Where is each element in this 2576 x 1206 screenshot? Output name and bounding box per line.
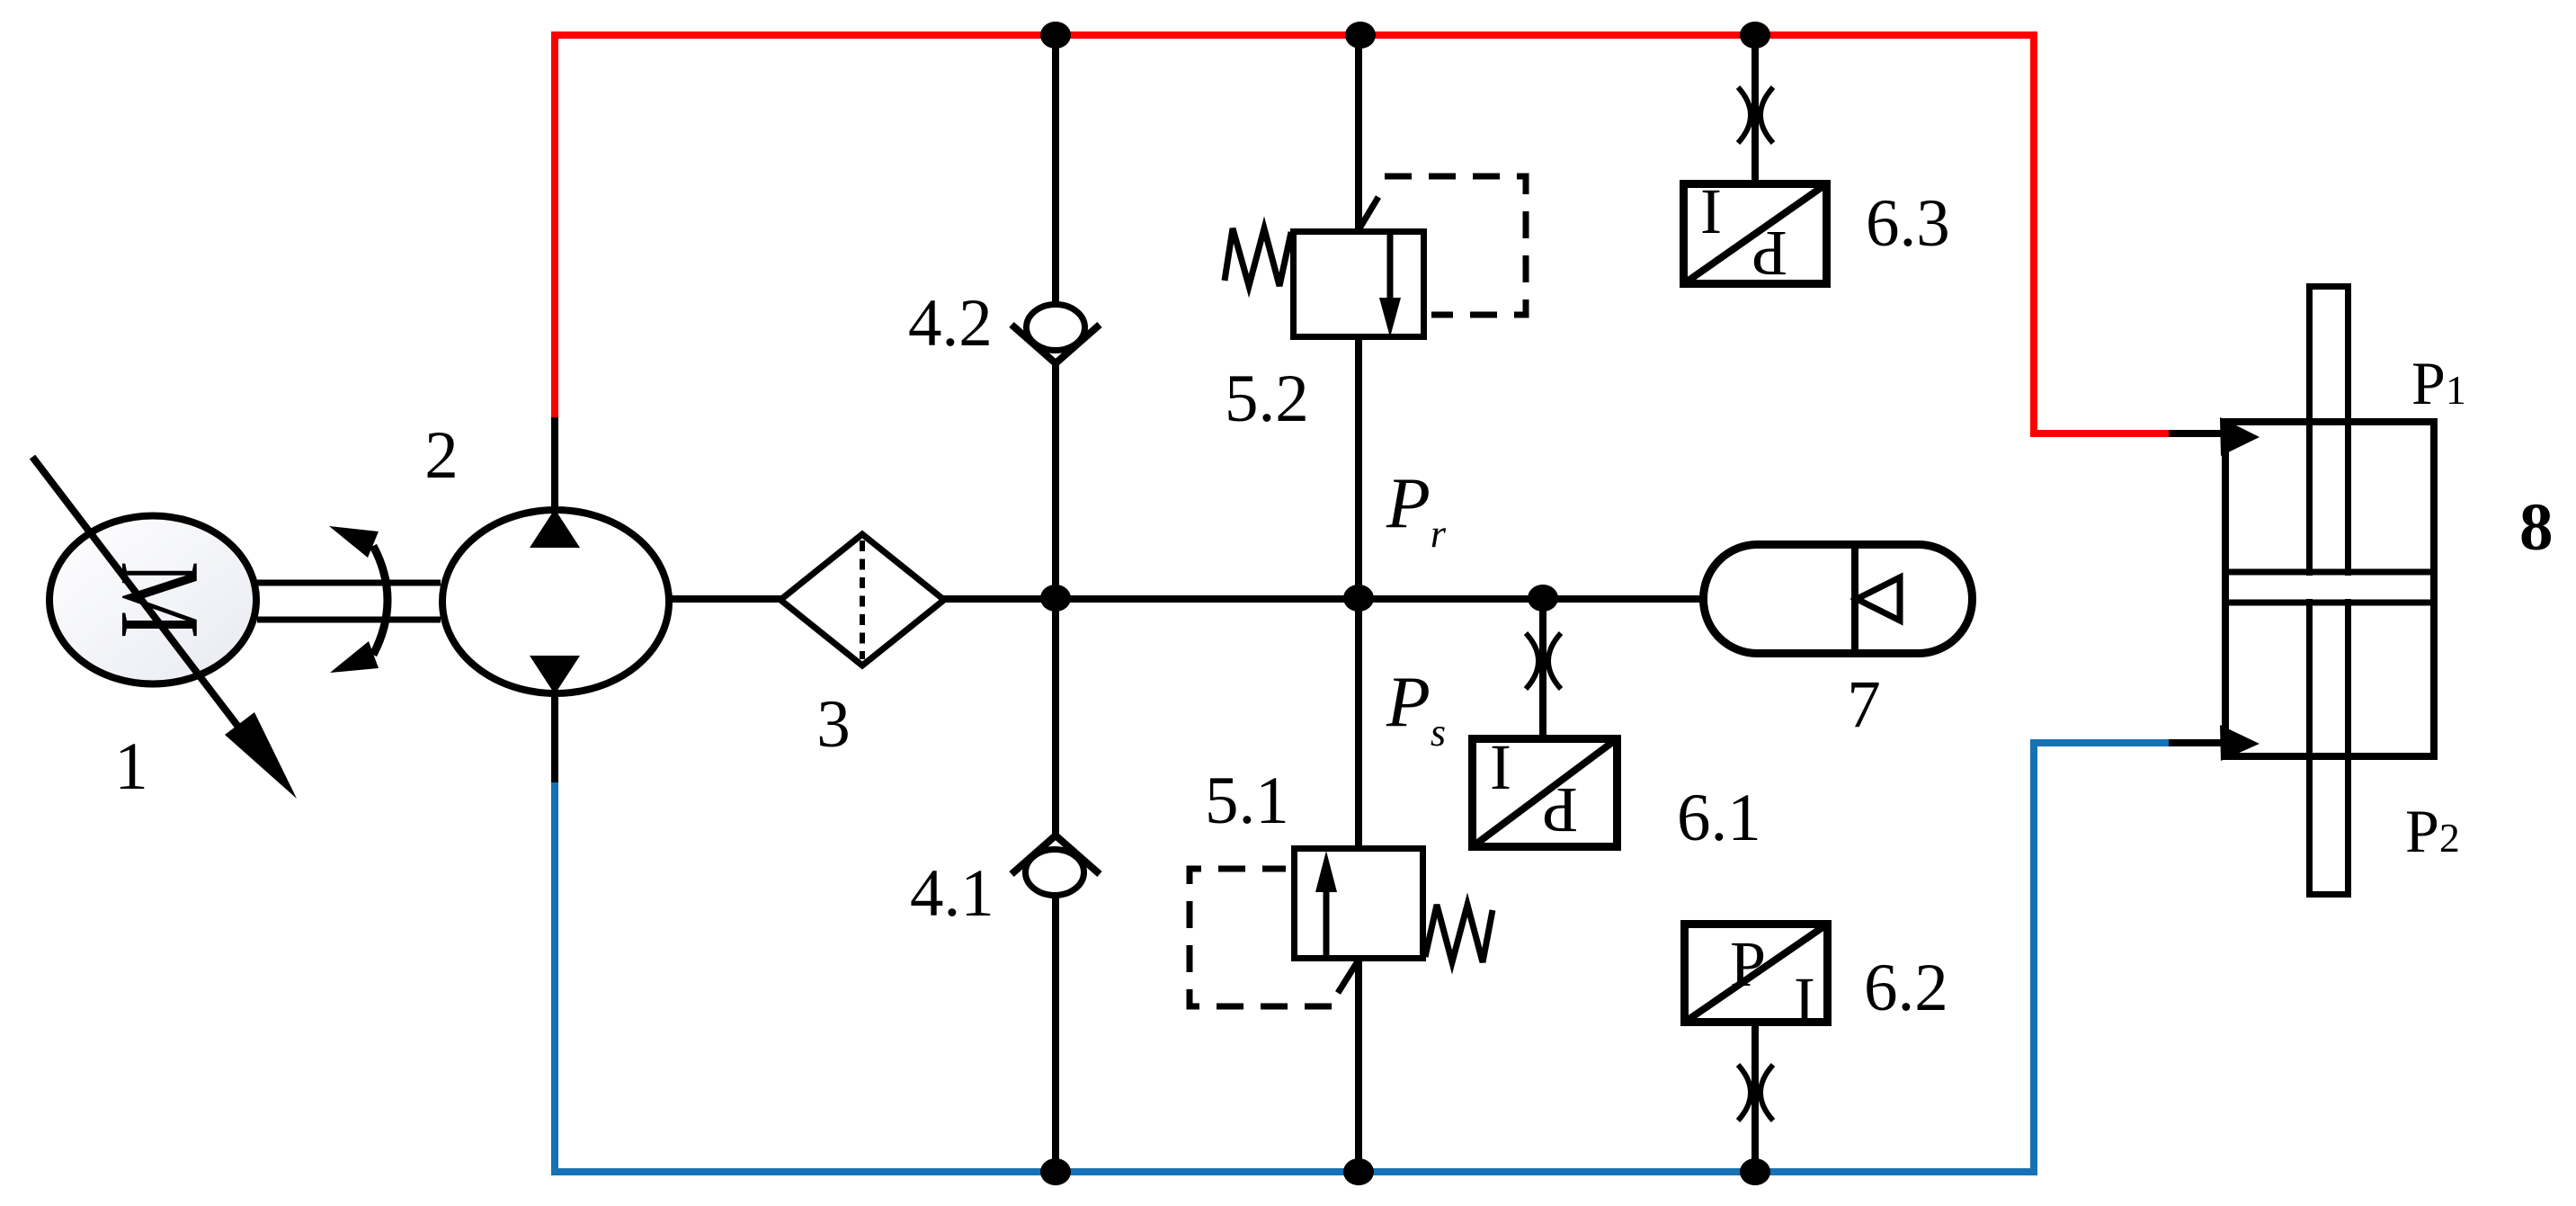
- node: top bus / relief branch: [1345, 22, 1376, 49]
- svg-text:6.2: 6.2: [1864, 951, 1948, 1025]
- svg-text:P: P: [1752, 218, 1787, 290]
- relief valve 5.2 body: [1294, 232, 1424, 337]
- motor-pump shaft: [257, 580, 441, 586]
- variable-displacement arrow through motor: [32, 457, 241, 730]
- rotation arrow at shaft: [373, 546, 388, 655]
- svg-text:4.1: 4.1: [910, 856, 994, 931]
- relief valve 5.1 body: [1295, 849, 1423, 959]
- throttle at sensor 6.2: [1738, 1065, 1751, 1121]
- svg-text:7: 7: [1847, 667, 1881, 742]
- svg-text:4.2: 4.2: [908, 286, 993, 361]
- svg-text:Ps: Ps: [1386, 663, 1446, 755]
- node: center line / sensor 6.1: [1528, 585, 1558, 612]
- cylinder port arrow P1: [2220, 417, 2260, 456]
- relief valve 5.1 adjust stub: [1338, 961, 1358, 993]
- svg-text:I: I: [1700, 175, 1722, 247]
- svg-text:P1: P1: [2411, 349, 2466, 417]
- node: bottom bus / sensor 6.2: [1740, 1158, 1770, 1185]
- sensor 6.1 box: [1473, 739, 1618, 847]
- svg-text:P2: P2: [2405, 797, 2460, 865]
- svg-text:3: 3: [816, 687, 851, 762]
- sensor 6.3 box: [1684, 184, 1827, 284]
- wire: blue low-pressure bus P2 (bottom): [555, 743, 2170, 1172]
- wire: cylinder port P2 black stub: [2169, 739, 2224, 746]
- wire: cylinder port P1 black stub: [2169, 430, 2224, 437]
- cylinder 8: piston: [2227, 576, 2432, 599]
- pump bottom flow triangle: [530, 656, 580, 694]
- relief valve 5.1 spring: [1425, 905, 1493, 962]
- wire: pump bottom port: [551, 693, 558, 782]
- cylinder 8: body: [2225, 422, 2434, 756]
- node: top bus / sensor 6.3: [1740, 22, 1770, 49]
- svg-text:8: 8: [2519, 490, 2554, 565]
- wire: sensor 6.2 drop line: [1752, 1023, 1759, 1172]
- svg-text:I: I: [1794, 964, 1815, 1036]
- node: bottom bus / check-valve branch: [1040, 1158, 1071, 1185]
- throttle at sensor 6.3: [1738, 87, 1751, 143]
- filter 3 diamond: [780, 534, 944, 666]
- svg-text:1: 1: [114, 729, 148, 804]
- node: top bus / check-valve branch: [1040, 22, 1071, 49]
- relief valve 5.1 pilot dashed box: [1190, 869, 1332, 1006]
- node: bottom bus / relief branch: [1343, 1158, 1374, 1185]
- pump 2 body: [442, 510, 669, 693]
- svg-text:5.1: 5.1: [1205, 764, 1289, 838]
- relief valve 5.2 spring: [1225, 228, 1291, 286]
- svg-text:6.3: 6.3: [1866, 186, 1950, 261]
- check valve 4.1: [1005, 833, 1106, 877]
- sensor 6.2 box: [1685, 925, 1828, 1023]
- svg-text:2: 2: [424, 418, 459, 493]
- motor M1 body: [49, 516, 256, 684]
- svg-text:6.1: 6.1: [1677, 781, 1761, 855]
- svg-text:P: P: [1730, 928, 1766, 1000]
- cylinder 8: piston rod: [2310, 287, 2349, 895]
- check valve 4.2: [1005, 322, 1106, 366]
- accumulator 7: [1704, 545, 1973, 654]
- wire: relief-valve branch (vertical through 5.1 / 5.2): [1355, 35, 1362, 1172]
- wire: main center line: [671, 595, 1703, 603]
- relief valve 5.2 adjust stub: [1359, 197, 1378, 228]
- cylinder port arrow P2: [2220, 725, 2260, 761]
- svg-text:Pr: Pr: [1386, 464, 1447, 556]
- svg-text:P: P: [1542, 774, 1578, 846]
- node: center line / relief branch: [1343, 585, 1374, 612]
- relief valve 5.2 pilot dashed box: [1385, 176, 1526, 315]
- relief valve 5.2 internal arrow: [1387, 230, 1394, 300]
- wire: check-valve branch (vertical through 4.1 / 4.2): [1052, 35, 1059, 1172]
- relief valve 5.1 internal arrow: [1324, 889, 1330, 960]
- wire: red high-pressure bus P1 (top): [555, 35, 2174, 433]
- wire: sensor 6.1 drop line: [1539, 599, 1546, 738]
- node: center line / check-valve branch: [1040, 585, 1071, 612]
- wire: pump top port: [551, 417, 558, 510]
- svg-text:I: I: [1490, 731, 1511, 803]
- throttle at sensor 6.1: [1526, 633, 1538, 689]
- pump top flow triangle: [530, 509, 580, 548]
- wire: sensor 6.3 drop line: [1752, 35, 1759, 183]
- svg-text:5.2: 5.2: [1225, 362, 1309, 436]
